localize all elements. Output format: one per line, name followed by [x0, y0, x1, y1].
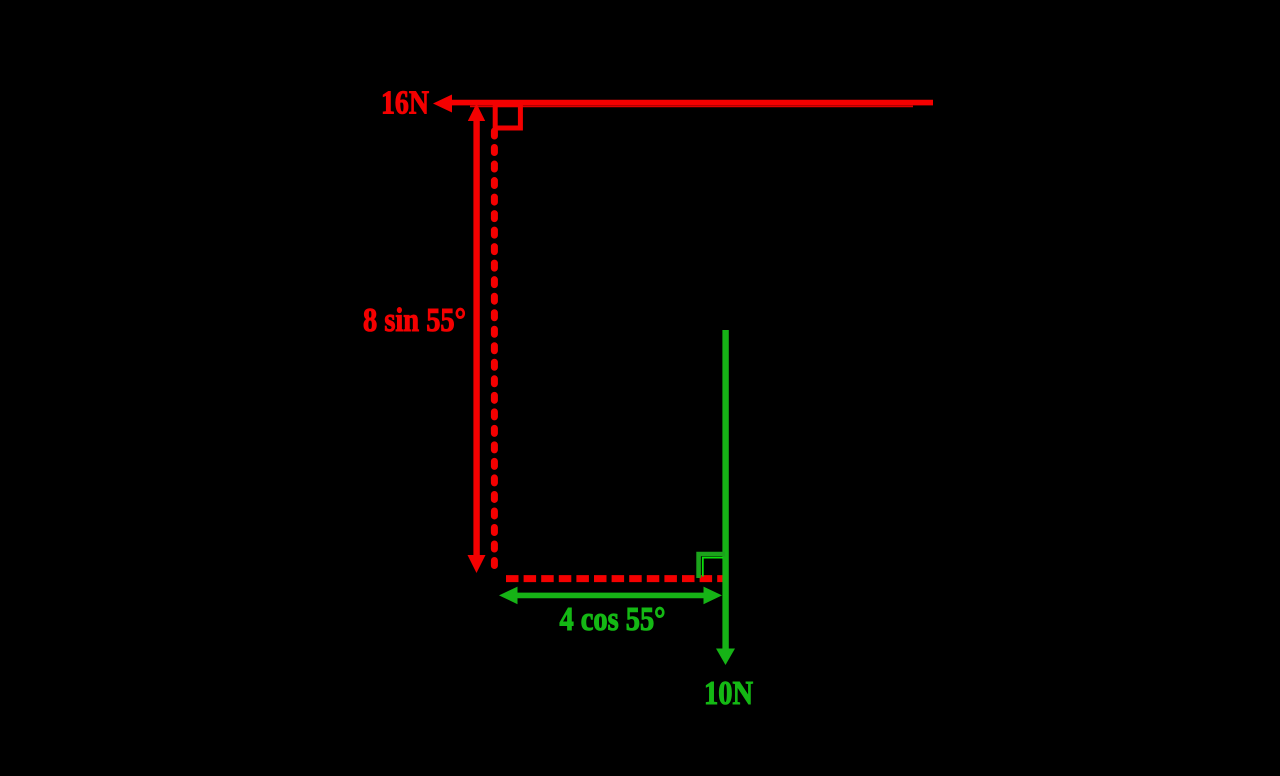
- force arrow 10N vertical green line: [722, 330, 728, 650]
- svg-text:10N: 10N: [704, 675, 753, 712]
- dashed red horizontal construction line: [506, 575, 728, 582]
- svg-text:16N: 16N: [381, 85, 429, 122]
- arrowhead left of 16N line: [433, 95, 452, 113]
- wire thin echo line under 16N line: [470, 105, 913, 107]
- arrowhead left of green double arrow: [499, 587, 518, 605]
- arrowhead down of vertical red arrow: [468, 555, 486, 573]
- svg-text:8 sin 55°: 8 sin 55°: [363, 302, 466, 339]
- force arrow 16N horizontal line: [449, 100, 933, 106]
- right angle marker green square outer: [699, 554, 725, 578]
- force component arrow 8 sin 55 vertical double arrow shaft: [473, 117, 479, 559]
- measure arrow 4 cos 55 green double arrow shaft: [514, 593, 707, 599]
- arrowhead down of 10N arrow: [716, 649, 735, 666]
- arrowhead right of green double arrow: [704, 587, 723, 605]
- svg-text:4 cos 55°: 4 cos 55°: [560, 601, 666, 638]
- arrowhead up of vertical red arrow: [468, 104, 485, 122]
- dotted red vertical construction line: [491, 131, 498, 569]
- right angle marker green square inner bright: [703, 558, 723, 577]
- right angle marker red square: [495, 105, 520, 128]
